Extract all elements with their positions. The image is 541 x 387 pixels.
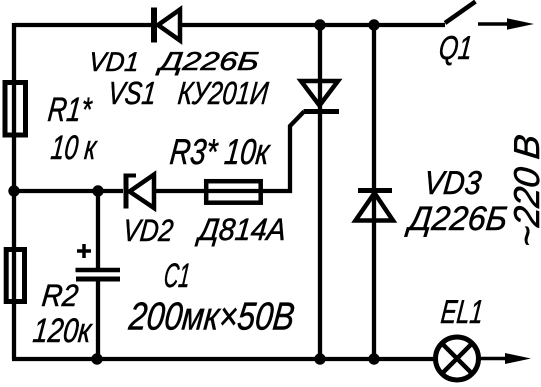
svg-text:VD2: VD2 [121, 213, 175, 248]
svg-text:200мк×50В: 200мк×50В [126, 296, 296, 339]
svg-text:Д226Б: Д226Б [403, 200, 509, 238]
svg-text:Д226Б: Д226Б [155, 46, 261, 76]
svg-text:VD3: VD3 [422, 165, 483, 202]
svg-text:Д814А: Д814А [195, 212, 288, 247]
svg-text:VS1: VS1 [106, 75, 158, 111]
svg-text:~220 В: ~220 В [506, 133, 541, 249]
svg-text:R1*: R1* [46, 91, 94, 129]
svg-text:120к: 120к [31, 312, 94, 350]
svg-text:R2: R2 [40, 278, 80, 313]
svg-text:R3* 10к: R3* 10к [168, 131, 273, 172]
svg-text:Q1: Q1 [437, 30, 474, 67]
svg-text:VD1: VD1 [87, 46, 140, 77]
svg-text:C1: C1 [162, 257, 192, 295]
svg-text:EL1: EL1 [439, 294, 485, 331]
svg-text:10 к: 10 к [49, 129, 99, 167]
svg-text:КУ201И: КУ201И [176, 75, 270, 111]
